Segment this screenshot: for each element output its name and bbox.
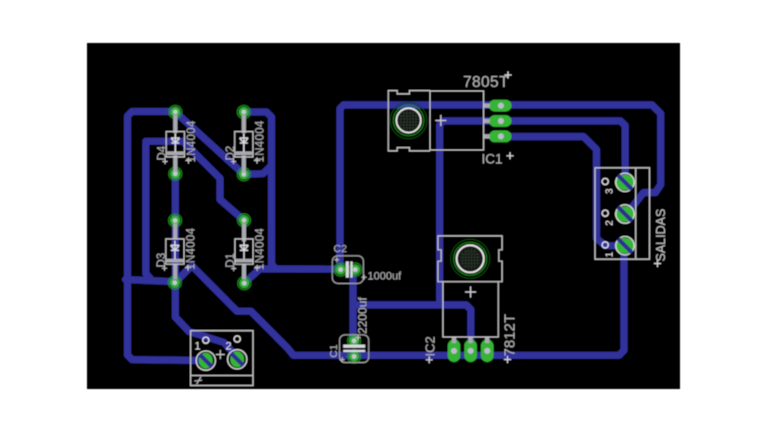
wire: middle horizontal to IC2 center pad	[353, 305, 471, 351]
svg-text:1: 1	[195, 341, 201, 353]
pad IC2.1	[448, 340, 461, 363]
svg-text:C2: C2	[334, 243, 348, 255]
wire: IC1 pad2 rail from center cross down to IC2 feed, and right to SALIDAS pad3	[440, 121, 626, 304]
wire: D3 bottom pad down, diagonal to X1 pad 2	[175, 174, 237, 358]
svg-text:7812T: 7812T	[502, 314, 519, 357]
pad IC1.3	[489, 131, 512, 143]
connector X1 terminal block	[191, 331, 253, 386]
svg-text:SALIDAS: SALIDAS	[654, 209, 668, 262]
pad C2.plus	[334, 263, 347, 276]
pad D4.2	[169, 167, 182, 180]
diode D1	[225, 223, 266, 279]
svg-text:D2: D2	[225, 146, 237, 161]
svg-text:D1: D1	[225, 253, 237, 268]
pad X1.1	[196, 351, 215, 370]
svg-text:IC2: IC2	[423, 336, 438, 356]
pad D3.1	[169, 214, 182, 227]
svg-text:C1: C1	[328, 344, 340, 358]
pad SALIDAS.3	[615, 173, 635, 191]
svg-text:1: 1	[605, 251, 616, 257]
board background	[87, 43, 680, 389]
diode D2	[225, 115, 267, 172]
pad D1.1	[238, 214, 251, 227]
wire big bottom net: D3 bottom pad, S-bend, bottom run to SALIDAS pad1	[175, 246, 626, 356]
pad C2.minus	[349, 263, 362, 276]
svg-text:IC1: IC1	[482, 151, 503, 166]
svg-text:2: 2	[226, 341, 232, 353]
wire net AC1: D4 top pad to left rail, down to X1 pad 1	[128, 112, 206, 361]
pad X1.2	[228, 350, 247, 369]
op IC1 regulator 7805T outline	[388, 72, 513, 167]
connector SALIDAS terminal block	[595, 168, 668, 267]
capacitor C1	[328, 297, 370, 363]
pad IC1.1	[489, 100, 512, 112]
pad SALIDAS.1	[615, 237, 635, 255]
pad IC2.2	[464, 340, 477, 363]
wire: C2 right pad down to C1 top pad	[353, 270, 355, 341]
wire: top long rail C2 left pad up, right through IC1 pad1, around to SALIDAS pad2	[340, 105, 661, 270]
svg-text:D4: D4	[157, 145, 169, 160]
pad C1.minus	[348, 350, 361, 363]
pad D1.2	[238, 277, 251, 290]
svg-text:1N4004: 1N4004	[186, 227, 198, 269]
svg-text:1000uf: 1000uf	[368, 271, 403, 283]
capacitor C2	[332, 243, 402, 283]
svg-text:1N4004: 1N4004	[255, 120, 267, 162]
wire branch: vertical x271 to D2 bottom pad	[245, 166, 272, 175]
svg-text:D3: D3	[156, 253, 168, 268]
wire net: inner rail horizontal behind D4 body, diagonal to D1 top pad	[146, 141, 244, 220]
pad D2.2	[237, 168, 250, 181]
pad IC1.2	[489, 115, 512, 127]
wire branch: left rail to D3 bottom pad	[126, 280, 175, 282]
pad C1.plus	[348, 334, 361, 347]
svg-text:1N4004: 1N4004	[255, 228, 267, 270]
svg-text:7805T: 7805T	[463, 74, 509, 91]
wire: D1 bottom pad diagonal up to horizontal into C2 left pad	[244, 269, 340, 283]
svg-text:2200uf: 2200uf	[356, 297, 370, 334]
pad D3.2	[168, 276, 181, 289]
diode D3	[156, 224, 198, 280]
wire: IC1 pad3 right, diagonal down, vertical to SALIDAS pad1	[505, 137, 623, 246]
pad IC2.3	[481, 340, 494, 363]
svg-text:1N4004: 1N4004	[186, 120, 198, 162]
pad SALIDAS.2	[615, 205, 635, 223]
pad D2.1	[237, 106, 250, 119]
wire node: inner left rail vertical to D3 bottom pad corner	[146, 144, 151, 279]
diode D4	[157, 115, 199, 172]
wire diagonal D4 top pad to D2 bottom pad	[177, 113, 244, 174]
svg-text:2: 2	[605, 220, 616, 226]
op IC2 regulator 7812T outline	[423, 236, 519, 363]
wire net: D2 top pad right, down to C2 left pad	[244, 112, 276, 269]
svg-text:3: 3	[605, 188, 616, 194]
pad D4.1	[169, 106, 182, 119]
